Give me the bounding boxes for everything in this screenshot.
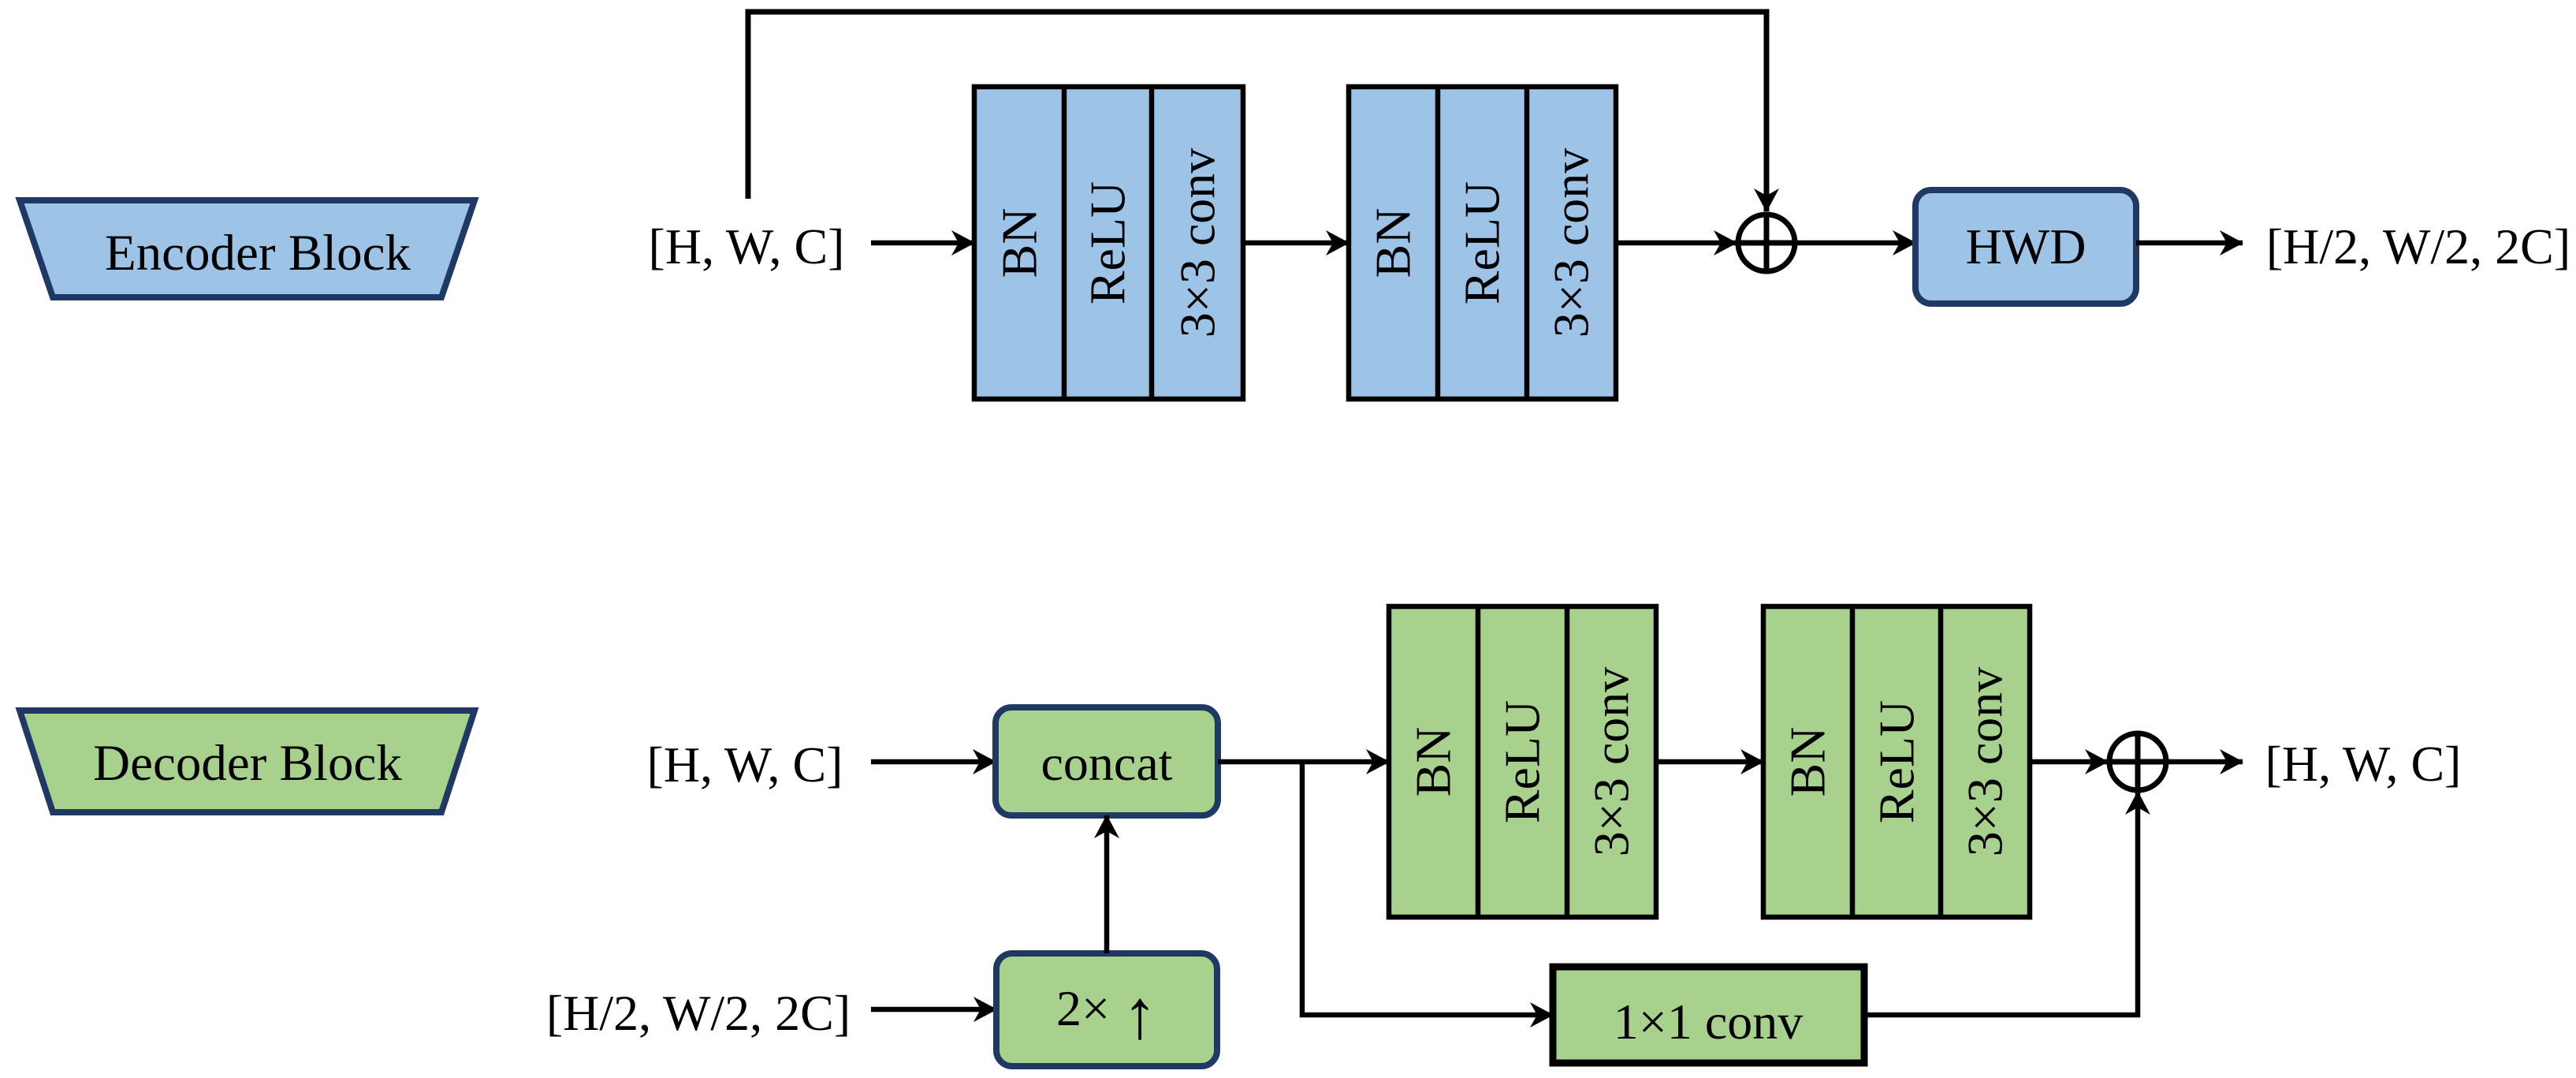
- 1x1 conv box: [1553, 967, 1864, 1063]
- decoder block legend trapezoid: [20, 711, 475, 812]
- encoder conv block 2 (BN | ReLU | 3x3 conv): [1349, 87, 1616, 399]
- wire: 1x1 conv to decoder adder (up into adder): [1864, 792, 2138, 1015]
- svg-text:3×3 conv: 3×3 conv: [1957, 667, 2013, 857]
- svg-text:concat: concat: [1041, 735, 1173, 791]
- decoder conv block 3 (BN | ReLU | 3x3 conv): [1389, 606, 1656, 917]
- wire: conv block 4 to decoder adder: [2030, 759, 2108, 765]
- wire: conv block 3 to conv block 4: [1656, 759, 1763, 765]
- wire: input to conv block 1: [871, 241, 974, 246]
- svg-text:ReLU: ReLU: [1454, 181, 1510, 304]
- svg-text:1×1 conv: 1×1 conv: [1614, 994, 1804, 1050]
- wire: HWD to output label: [2136, 241, 2243, 246]
- wire: decoder adder to output label: [2168, 759, 2243, 765]
- wire: upsample input label to 2x upsample box: [871, 1007, 996, 1013]
- 2x upsample box: [996, 953, 1217, 1066]
- svg-text:[H, W, C]: [H, W, C]: [2265, 736, 2462, 792]
- svg-text:3×3 conv: 3×3 conv: [1543, 148, 1599, 338]
- svg-text:3×3 conv: 3×3 conv: [1584, 667, 1640, 857]
- svg-text:ReLU: ReLU: [1869, 700, 1925, 823]
- svg-text:ReLU: ReLU: [1495, 700, 1550, 823]
- encoder block legend trapezoid: [20, 200, 475, 297]
- wire: conv block 1 to conv block 2: [1243, 241, 1349, 246]
- svg-text:[H, W, C]: [H, W, C]: [649, 218, 845, 274]
- svg-text:ReLU: ReLU: [1080, 181, 1136, 304]
- decoder conv block 4 (BN | ReLU | 3x3 conv): [1763, 606, 2030, 917]
- HWD downsample box: [1915, 190, 2136, 304]
- wire: concat to conv block 3: [1218, 759, 1389, 765]
- svg-text:[H/2, W/2, 2C]: [H/2, W/2, 2C]: [546, 985, 851, 1041]
- svg-text:[H, W, C]: [H, W, C]: [647, 737, 843, 793]
- svg-text:3×3 conv: 3×3 conv: [1170, 148, 1226, 338]
- svg-text:BN: BN: [1365, 208, 1421, 278]
- encoder conv block 1 (BN | ReLU | 3x3 conv): [974, 87, 1243, 399]
- concat box: [996, 707, 1218, 815]
- svg-text:BN: BN: [1405, 727, 1461, 797]
- svg-text:Decoder Block: Decoder Block: [93, 735, 402, 792]
- wire: skip input to concat: [871, 759, 996, 765]
- encoder adder (circle plus): [1738, 214, 1795, 271]
- svg-text:HWD: HWD: [1966, 218, 2086, 274]
- svg-text:Encoder Block: Encoder Block: [105, 225, 411, 282]
- wire: upsample box up into concat: [1104, 815, 1110, 953]
- wire: encoder skip connection (from input label up, across, down to adder): [748, 12, 1766, 211]
- svg-text:[H/2, W/2, 2C]: [H/2, W/2, 2C]: [2266, 218, 2570, 274]
- wire: branch from junction down to 1x1 conv: [1302, 759, 1553, 1015]
- svg-text:BN: BN: [1780, 727, 1836, 797]
- svg-text:BN: BN: [992, 208, 1048, 278]
- decoder adder (circle plus): [2109, 733, 2166, 790]
- wire: adder to HWD: [1796, 241, 1915, 246]
- wire: conv block 2 to adder: [1616, 241, 1737, 246]
